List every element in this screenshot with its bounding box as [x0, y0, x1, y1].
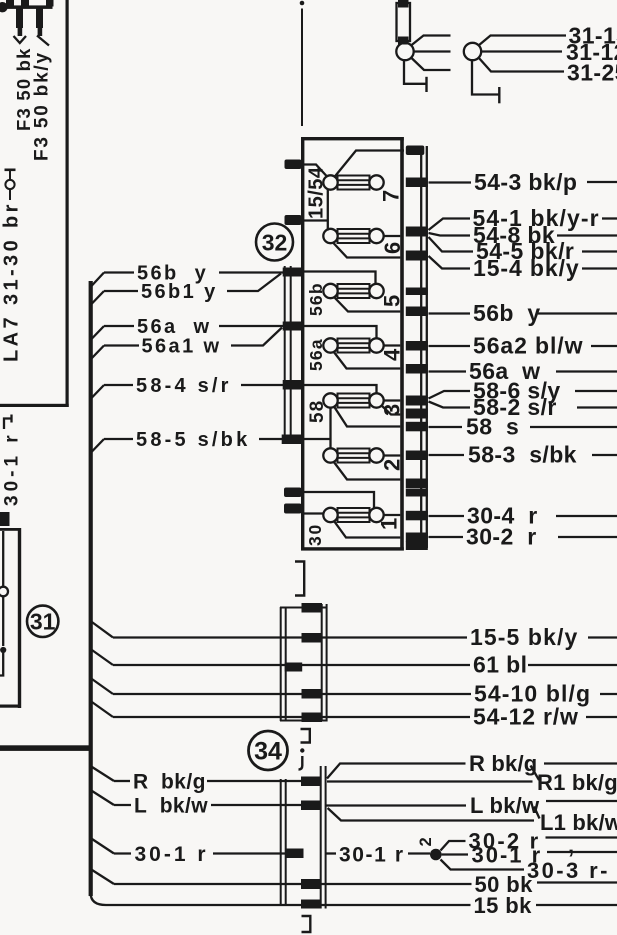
- bracket below mid connector: [301, 729, 310, 743]
- svg-text:58-5 s/bk: 58-5 s/bk: [136, 429, 250, 451]
- pin mid top: [302, 603, 323, 613]
- pin 61: [285, 663, 303, 672]
- svg-text:15-4 bk/y: 15-4 bk/y: [473, 255, 580, 281]
- svg-text:7: 7: [379, 190, 404, 202]
- pin 58-4: [283, 380, 303, 390]
- wire F3 spare output: [382, 406, 401, 415]
- wire stub 54-10: [91, 678, 114, 694]
- svg-text:58-3 s/bk: 58-3 s/bk: [468, 442, 577, 468]
- wire J1 upper: [411, 36, 451, 46]
- wire L bk/w (left): [114, 804, 131, 806]
- circle 32 (section marker): [256, 224, 293, 261]
- ground G2: [472, 60, 499, 94]
- pin 54-10: [302, 689, 323, 699]
- wire 58-5 s/bk: [104, 438, 133, 440]
- wire F5 input (56b): [303, 272, 376, 284]
- pin L: [301, 801, 321, 811]
- fuse F3: [323, 393, 383, 407]
- fuse F1: [323, 508, 383, 522]
- bracket j mark: [300, 748, 304, 752]
- connector stub C (cut at top): [46, 0, 54, 7]
- wire 58-3 s/bk: [429, 454, 465, 456]
- wire stub 15-5: [91, 621, 114, 638]
- wire bundle (main harness riser): [89, 281, 93, 896]
- wire F1 right output (30-4): [384, 514, 401, 516]
- pin 58 s: [406, 422, 428, 432]
- wire F5 left output (56b y): [334, 297, 400, 312]
- wire F3 50 bk down-stub: [16, 9, 23, 29]
- wire 56a1 w: [104, 344, 139, 346]
- stub 15/54 in B: [285, 215, 302, 225]
- pin bottom spare: [406, 542, 428, 551]
- wire 56a w: [104, 325, 134, 327]
- svg-text:3: 3: [380, 404, 405, 416]
- wire F7-F6 left bus: [327, 190, 329, 231]
- svg-text:6: 6: [380, 242, 405, 254]
- wire 54-8 bk: [429, 233, 471, 236]
- wire top-left bus: [0, 5, 53, 8]
- wire 54-10 bl/g: [113, 693, 471, 695]
- svg-text:56b1 y: 56b1 y: [141, 281, 218, 303]
- wire 58-4 s/r: [104, 384, 133, 386]
- pin 56a2: [406, 341, 428, 351]
- junction dot (top-left bus): [0, 2, 8, 12]
- pin 50: [301, 879, 321, 889]
- fuse F6: [323, 229, 383, 243]
- wire F6 right output: [384, 235, 401, 237]
- wire F7 input: [304, 165, 327, 177]
- fuse box outline: [301, 137, 304, 551]
- wire R bk/g (left): [114, 780, 130, 782]
- svg-text:LA7 31-30 br: LA7 31-30 br: [1, 201, 23, 362]
- wire F7 top output: [334, 151, 404, 178]
- svg-text:2: 2: [417, 837, 435, 846]
- node marker dot (top center): [300, 1, 305, 6]
- junction J2: [464, 43, 481, 60]
- svg-text:54-12 r/w: 54-12 r/w: [473, 704, 579, 730]
- svg-text:56a2 bl/w: 56a2 bl/w: [473, 333, 583, 359]
- pin spare mid: [406, 288, 428, 296]
- wire stub 54-12: [91, 701, 114, 717]
- wire 58 s: [429, 426, 463, 428]
- wire 58-5 input: [303, 438, 331, 440]
- wire 30-2 r: [441, 841, 466, 851]
- svg-text:34: 34: [254, 738, 282, 766]
- wire F2 left output (spare): [334, 462, 401, 480]
- inline connector symbol (-o-): [5, 169, 16, 172]
- connector stub on box 31: [0, 512, 10, 526]
- svg-text:15 bk: 15 bk: [474, 893, 533, 918]
- svg-text:56a: 56a: [306, 338, 326, 371]
- svg-text:58-4 s/r: 58-4 s/r: [136, 375, 232, 397]
- svg-text:61 bl: 61 bl: [473, 652, 527, 678]
- svg-text:L bk/w: L bk/w: [470, 793, 540, 818]
- stub 30 in B: [284, 504, 302, 514]
- pin R: [301, 777, 321, 787]
- svg-text:5: 5: [380, 295, 405, 307]
- svg-text:L bk/w: L bk/w: [134, 795, 208, 818]
- bracket below low connector: [302, 916, 311, 932]
- wire F3-F2 left bus: [329, 408, 331, 448]
- wire F4 left output (56a w): [334, 352, 401, 369]
- svg-text:15-5 bk/y: 15-5 bk/y: [470, 624, 578, 650]
- wire 56b y: [104, 271, 134, 273]
- wire stub R: [91, 766, 115, 781]
- wire 31-12: [481, 50, 562, 52]
- component inside box 31: [2, 531, 4, 587]
- svg-text:4: 4: [380, 348, 405, 361]
- svg-text:R bk/g: R bk/g: [469, 751, 537, 776]
- connector strip right of fuse box (double rails): [420, 146, 422, 548]
- pin 58-5: [282, 435, 303, 445]
- svg-text:31-25: 31-25: [567, 60, 617, 86]
- wire riser (top center): [301, 9, 303, 127]
- wire stub 58-5: [91, 439, 105, 453]
- pin 15-4: [406, 251, 428, 261]
- wire J1 lower: [411, 58, 451, 71]
- stub 15/54 in A: [285, 160, 302, 170]
- wire 58-6 s/y: [429, 391, 471, 399]
- wire stub 56a: [91, 326, 105, 340]
- svg-text:31: 31: [30, 609, 56, 635]
- wire stub L: [91, 790, 115, 805]
- svg-text:2: 2: [380, 459, 405, 471]
- ground G1: [404, 60, 426, 84]
- pin 15-5: [302, 633, 323, 643]
- pin 54-3: [406, 178, 428, 188]
- wire F3 input (58-4): [303, 385, 377, 393]
- svg-text:58 s: 58 s: [466, 414, 519, 440]
- svg-text:30-2 r: 30-2 r: [466, 524, 537, 550]
- wire 30-2 r: [429, 536, 464, 538]
- svg-text:R bk/g: R bk/g: [133, 771, 206, 794]
- connector mid (double rails): [280, 607, 282, 721]
- circle 31 (section marker): [27, 606, 58, 637]
- pin 58 spare: [406, 409, 428, 419]
- pin 58 fan: [406, 396, 428, 406]
- wire 30-1 r (right): [442, 853, 468, 855]
- wire 56b y (right): [429, 312, 471, 314]
- junction dot 30-1: [430, 849, 442, 861]
- wire 56b1 y: [104, 290, 138, 292]
- wire J1 middle: [414, 50, 451, 52]
- wire 30-1 r (middle): [326, 852, 336, 854]
- fuse element (inline, top): [397, 3, 411, 41]
- wire 15 bk: [113, 904, 471, 906]
- box F3 right wall: [66, 0, 69, 407]
- box F3 bottom edge: [0, 404, 69, 407]
- wire 50 bk: [114, 883, 472, 885]
- connector low (double rails): [280, 779, 282, 904]
- wire F3 50 bk/y down-stub: [36, 9, 43, 29]
- pin 54 fan: [406, 227, 428, 237]
- wire stub 61: [91, 649, 114, 665]
- svg-text:30: 30: [305, 523, 325, 546]
- svg-text:30-1 r: 30-1 r: [339, 844, 405, 867]
- wire 15-5 bk/y: [113, 636, 467, 638]
- wire 61 bl: [113, 664, 470, 666]
- svg-text:54-3 bk/p: 54-3 bk/p: [474, 169, 577, 195]
- wire F3 right output (58-2/58-6): [384, 399, 401, 401]
- svg-text:30-1 r: 30-1 r: [135, 843, 209, 866]
- wire F1 input A: [304, 492, 374, 508]
- wire 15-4 bk/y: [429, 256, 471, 269]
- wire 31-13: [479, 36, 567, 46]
- wire 54-1 bk/y-r: [429, 219, 471, 231]
- wire stub 15 (bundle bottom bend): [91, 893, 113, 905]
- wire 30-1 r (left): [114, 852, 131, 854]
- pin 56b: [283, 268, 303, 277]
- pin 54-12: [302, 713, 323, 723]
- wire 54-3 bk/p: [429, 181, 472, 183]
- wire F1 input B: [304, 512, 324, 514]
- wire F4 input (56a): [303, 326, 377, 338]
- wire stub 56b: [91, 273, 105, 288]
- wire F2 right output (58-3): [384, 454, 401, 456]
- svg-text:32: 32: [262, 230, 288, 256]
- wire 15/54 input B: [304, 219, 328, 221]
- svg-text:58: 58: [307, 400, 328, 423]
- pin 56a: [283, 322, 303, 331]
- wire stub 58-4: [91, 385, 105, 399]
- thick feed line bottom-left: [0, 745, 92, 751]
- wire F6 left output (15-4): [333, 242, 401, 258]
- wire R1 bk/g: [327, 780, 533, 782]
- arrow hook of label 30-1 r: [4, 415, 12, 430]
- wire stub 56a1: [91, 346, 105, 360]
- svg-text:,: ,: [568, 833, 574, 858]
- fuse F4: [323, 338, 383, 352]
- pin 58-3: [406, 451, 428, 461]
- wire F3 left output (58 s): [334, 407, 400, 427]
- svg-text:30-3 r-: 30-3 r-: [527, 858, 610, 883]
- svg-text:1: 1: [377, 518, 402, 530]
- connector left of fuse box (double rails): [284, 266, 286, 443]
- wire stub 50: [91, 869, 115, 884]
- fuse F5: [323, 284, 383, 298]
- wire 31-25: [479, 58, 565, 72]
- svg-text:15/54: 15/54: [306, 166, 328, 219]
- pin spare B: [406, 489, 428, 497]
- wire 54-12 r/w: [113, 716, 470, 718]
- wire 30-4 r: [429, 515, 465, 517]
- wire 30-3 r: [441, 860, 525, 870]
- svg-text:56b y: 56b y: [473, 300, 541, 326]
- fuse F2: [323, 448, 383, 462]
- junction J1: [396, 43, 413, 60]
- pin 30-1: [286, 849, 304, 859]
- wire F4 right output (56a2): [384, 344, 401, 346]
- wire 54-5 bk/r: [429, 237, 474, 252]
- fuse F7: [323, 175, 383, 189]
- arrowhead F3 50 bk/y: [37, 36, 49, 46]
- box 31 (relay housing, cut at left): [0, 528, 21, 531]
- svg-text:56a1 w: 56a1 w: [142, 336, 222, 358]
- svg-text:R1 bk/g-: R1 bk/g-: [537, 770, 617, 795]
- wire stub 56b1: [91, 291, 105, 305]
- bracket above mid connector: [295, 562, 304, 596]
- circle 34 (section marker): [249, 731, 288, 770]
- wire 58-2 s/r: [429, 402, 471, 408]
- svg-text:56b: 56b: [306, 282, 326, 316]
- wire stub 30-1: [91, 838, 115, 854]
- wire L bk/w (right): [326, 804, 466, 806]
- wire F1 left output (30-2): [334, 521, 400, 538]
- stub top right (15/54 feed): [406, 146, 425, 156]
- wire 56a2 bl/w: [429, 345, 471, 347]
- wire 56a w (right): [429, 370, 467, 372]
- pin 56a out: [406, 364, 428, 374]
- pin spare A: [406, 479, 428, 489]
- connector stub A (cut at top): [6, 0, 14, 7]
- svg-text:F3 50 bk/y: F3 50 bk/y: [32, 51, 53, 161]
- arrowhead F3 50 bk: [14, 36, 27, 43]
- pin 15: [301, 900, 321, 909]
- wire R bk/g (right): [327, 764, 466, 779]
- stub 30 in A: [284, 488, 302, 498]
- svg-text:30-1 r: 30-1 r: [2, 431, 23, 506]
- pin 30-2: [406, 533, 428, 543]
- pin 56b out: [406, 307, 428, 317]
- connector stub B (cut at top): [21, 0, 29, 7]
- svg-text:L1 bk/w: L1 bk/w: [540, 810, 617, 835]
- wire L1 bk/w: [328, 808, 534, 821]
- pin 30-4: [406, 511, 428, 521]
